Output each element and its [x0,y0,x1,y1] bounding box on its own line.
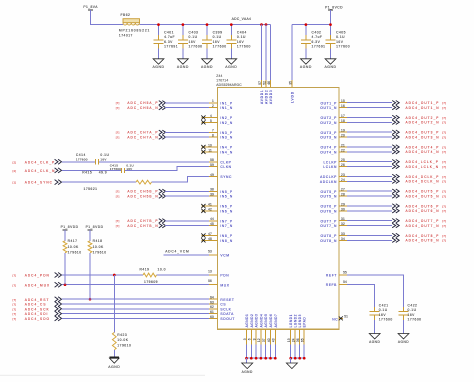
svg-text:22: 22 [341,148,345,152]
svg-text:LCLKN: LCLKN [323,165,337,169]
svg-text:[7]: [7] [442,116,446,120]
node ADC_CH7B input IN7 pins 44 45 [116,217,218,228]
svg-text:[7]: [7] [13,307,17,311]
svg-text:ADC4_LCLK_N: ADC4_LCLK_N [406,165,440,169]
svg-text:ADC_CH5B_P: ADC_CH5B_P [127,190,158,194]
node ADC_CH5A input IN1 pins 1 2 [116,99,218,110]
svg-text:C422: C422 [408,303,418,307]
svg-text:0.1U: 0.1U [237,35,246,39]
svg-text:54: 54 [343,280,347,284]
svg-text:ADC4_CLK_P: ADC4_CLK_P [25,160,56,164]
svg-text:FB62: FB62 [121,13,131,17]
node REFB pin 54 [326,280,375,307]
svg-text:R419: R419 [140,267,150,271]
svg-text:SDOUT: SDOUT [220,317,235,321]
svg-text:CLKP: CLKP [220,160,231,164]
resistor R418 10.0K [88,230,107,301]
svg-text:AGND1: AGND1 [245,314,249,328]
svg-text:C421: C421 [379,303,389,307]
capacitor C404 [226,25,251,59]
capacitor C421 [370,303,393,333]
svg-text:6.3V: 6.3V [164,40,173,44]
svg-text:46: 46 [267,81,271,85]
node ADC4_PDN pin 13 [13,269,218,277]
svg-text:AGND2: AGND2 [250,314,254,328]
svg-text:ADC_CH7B_N: ADC_CH7B_N [127,224,158,228]
node ADC4_CLK_N pin 59 [13,163,218,173]
svg-text:Z44: Z44 [216,74,222,78]
svg-text:AVDD2: AVDD2 [265,90,269,105]
svg-text:177600: 177600 [237,45,251,49]
resistor R423 10.0K [112,275,131,357]
svg-text:OUT4_N: OUT4_N [320,150,337,154]
node ADC4_OUT1 pins 15 16 [339,99,446,110]
svg-text:ADC_VAA4: ADC_VAA4 [232,17,252,21]
svg-text:5: 5 [210,119,212,123]
svg-text:[7]: [7] [116,101,120,105]
node ADC4_LCLK pins 25 26 [339,158,446,169]
IC U44 ADS5294ARGC body [218,88,340,330]
resistor R417 10.0K [63,230,82,285]
svg-text:[7]: [7] [442,190,446,194]
ground AGND (R423) [108,357,120,369]
svg-text:ADC_CH7B_P: ADC_CH7B_P [127,219,158,223]
svg-text:IN2_N: IN2_N [220,121,232,125]
svg-text:AGND: AGND [225,65,237,69]
svg-text:ADC_CH7A_N: ADC_CH7A_N [127,136,158,140]
svg-text:ADC4_DCLK_P: ADC4_DCLK_P [406,175,440,179]
svg-text:16V: 16V [379,313,387,317]
svg-text:24: 24 [292,338,296,342]
svg-text:IN5_P: IN5_P [220,190,232,194]
svg-text:16V: 16V [189,40,197,44]
svg-text:26: 26 [341,163,345,167]
svg-text:RESET: RESET [220,298,234,302]
svg-text:OUT8_N: OUT8_N [320,239,337,243]
svg-text:[7]: [7] [442,101,446,105]
svg-text:179610: 179610 [68,251,82,255]
svg-text:177691: 177691 [164,45,178,49]
svg-text:34: 34 [341,237,345,241]
node ADC4_SYNC pin 49 [13,173,218,185]
svg-text:ADC4_OUT7_P: ADC4_OUT7_P [406,219,440,223]
svg-text:ADC_CH5A_P: ADC_CH5A_P [127,101,158,105]
svg-text:IN3_N: IN3_N [220,136,232,140]
svg-text:ADC4_MUX: ADC4_MUX [25,283,51,287]
ground AGND (C422) [398,334,409,345]
svg-text:AGND7: AGND7 [274,314,278,328]
svg-text:32: 32 [341,222,345,226]
svg-text:ADC4_OUT1_P: ADC4_OUT1_P [406,101,440,105]
svg-text:0.1U: 0.1U [213,35,222,39]
svg-text:61: 61 [210,310,214,314]
svg-text:62: 62 [210,305,214,309]
svg-text:R423: R423 [117,333,127,337]
ground AGND (C404) [225,59,237,69]
svg-text:7: 7 [212,129,214,133]
wires LGND1-3 EPAD bottom pins [287,314,307,358]
ground AGND (C403) [177,59,189,69]
wire P1_8VD rail [292,24,331,26]
svg-text:IN6_N: IN6_N [220,209,232,213]
svg-text:ADC4_OUT6_P: ADC4_OUT6_P [406,204,440,208]
svg-text:174017: 174017 [119,33,133,37]
svg-text:[7]: [7] [442,175,446,179]
wire LVDD feed pin 35 [288,25,292,88]
svg-text:ADC4_OUT5_P: ADC4_OUT5_P [406,190,440,194]
svg-text:10.0K: 10.0K [93,245,104,249]
wire AVDD2 feed pin 52 [262,25,266,88]
svg-text:41: 41 [208,202,212,206]
no-connect NC pin 51 [332,314,348,321]
ferrite bead FB62 [119,13,150,38]
svg-text:10.0K: 10.0K [68,245,79,249]
svg-text:IN8_P: IN8_P [220,234,232,238]
node ADC4_OUT5 pins 27 28 [339,188,446,199]
svg-text:IN6_P: IN6_P [220,205,232,209]
capacitor C399 [202,25,227,59]
svg-text:ADC4_SDO: ADC4_SDO [25,317,50,321]
svg-text:LCLKP: LCLKP [323,160,337,164]
svg-text:[7]: [7] [13,317,17,321]
svg-text:ADC4_OUT2_N: ADC4_OUT2_N [406,121,440,125]
node ADC4_DCLK pins 23 24 [339,173,446,184]
svg-text:OUT1_N: OUT1_N [320,106,337,110]
svg-text:OUT1_P: OUT1_P [320,101,337,105]
svg-text:0.1U: 0.1U [336,35,345,39]
capacitor C422 [399,303,422,333]
node ADC4_CLK_P pin 58 [13,158,218,164]
svg-text:ADC4_OUT4_P: ADC4_OUT4_P [406,145,440,149]
svg-text:R417: R417 [68,239,78,243]
wire P1_8VCD down [330,10,332,24]
svg-text:1: 1 [212,99,214,103]
svg-text:[7]: [7] [442,234,446,238]
svg-text:SYNC: SYNC [220,175,232,179]
svg-text:PDN: PDN [220,274,229,278]
svg-text:177600: 177600 [408,318,422,322]
svg-text:ADC4_OUT1_N: ADC4_OUT1_N [406,106,440,110]
svg-text:OUT7_P: OUT7_P [320,219,337,223]
svg-text:179610: 179610 [117,344,131,348]
svg-text:57: 57 [258,81,262,85]
svg-text:44: 44 [210,217,214,221]
svg-text:[7]: [7] [442,160,446,164]
svg-text:52: 52 [262,81,266,85]
svg-text:ADC4_LCLK_P: ADC4_LCLK_P [406,160,439,164]
svg-text:49.9: 49.9 [99,170,107,174]
svg-text:OUT2_P: OUT2_P [320,116,337,120]
svg-text:10: 10 [208,143,212,147]
svg-text:59: 59 [210,163,214,167]
svg-text:[7]: [7] [116,190,120,194]
svg-text:REFB: REFB [326,283,337,287]
node ADC4_OUT4 pins 21 22 [339,143,446,154]
svg-text:ADS5294ARGC: ADS5294ARGC [216,83,242,87]
capacitor C403 [178,25,203,59]
svg-text:ADC4_OUT8_N: ADC4_OUT8_N [406,239,440,243]
power flag P1_8VDD (R417) [61,225,79,230]
svg-text:10.0: 10.0 [158,267,166,271]
ground AGND (C399) [201,59,213,69]
svg-text:177600: 177600 [336,45,350,49]
svg-text:179609: 179609 [144,280,158,284]
svg-text:OUT7_N: OUT7_N [320,224,337,228]
svg-text:177600: 177600 [110,167,121,171]
node ADC4_OUT8 pins 33 34 [339,232,446,243]
svg-text:ADC4_OUT4_N: ADC4_OUT4_N [406,150,440,154]
svg-text:27: 27 [341,188,345,192]
svg-text:42: 42 [208,207,212,211]
svg-text:11: 11 [208,148,212,152]
svg-text:P1_8VA: P1_8VA [83,5,98,9]
svg-text:53: 53 [208,250,212,254]
svg-text:[7]: [7] [13,298,17,302]
svg-text:LGND3: LGND3 [298,314,302,327]
svg-text:63: 63 [210,300,214,304]
svg-text:AGND3: AGND3 [255,314,259,328]
svg-text:65: 65 [301,338,305,342]
svg-text:C399: C399 [213,31,223,35]
svg-text:AGND: AGND [177,65,189,69]
svg-text:IN4_N: IN4_N [220,150,232,154]
svg-text:19: 19 [341,129,345,133]
svg-text:49: 49 [210,173,214,177]
svg-text:20: 20 [341,134,345,138]
junction dots P1_8VD rail [305,23,332,26]
svg-text:MUX: MUX [220,283,229,287]
svg-text:15: 15 [341,99,345,103]
svg-text:12: 12 [257,338,261,342]
svg-text:AGND: AGND [201,65,213,69]
svg-text:SCLK: SCLK [220,307,231,311]
no-connect IN2 pins 4 5 [201,114,217,125]
svg-text:47: 47 [208,232,212,236]
node ADC4_OUT6 pins 29 30 [339,202,446,213]
svg-text:177600: 177600 [213,45,227,49]
svg-text:IN4_P: IN4_P [220,146,232,150]
svg-text:177600: 177600 [189,45,203,49]
svg-text:[7]: [7] [442,145,446,149]
svg-text:[7]: [7] [442,150,446,154]
svg-text:13: 13 [287,338,291,342]
node ADC_CH5B input IN5 pins 38 39 [116,188,218,199]
svg-text:IN7_P: IN7_P [220,219,232,223]
svg-text:ADC4_OUT8_P: ADC4_OUT8_P [406,234,440,238]
ground AGND (C402) [300,59,312,69]
svg-text:OUT2_N: OUT2_N [320,121,337,125]
svg-text:ADC4_OUT3_P: ADC4_OUT3_P [406,131,440,135]
svg-text:AGND: AGND [369,340,380,344]
svg-text:ADC_CH5B_N: ADC_CH5B_N [127,195,158,199]
svg-text:OUT4_P: OUT4_P [320,146,337,150]
wires AGND1-7 bottom pins [243,314,278,359]
svg-text:[7]: [7] [116,224,120,228]
svg-text:8: 8 [212,134,214,138]
svg-text:ADC4_SCK: ADC4_SCK [25,307,50,311]
svg-text:4.7uF: 4.7uF [164,35,175,39]
wire AGND bus [245,357,277,360]
svg-text:[7]: [7] [116,219,120,223]
svg-text:ADC4_OUT6_N: ADC4_OUT6_N [406,209,440,213]
node REFT pin 55 [326,270,404,307]
svg-text:30: 30 [341,207,345,211]
no-connect IN6 pins 41 42 [201,202,217,213]
svg-text:[7]: [7] [442,131,446,135]
svg-text:37: 37 [262,338,266,342]
svg-text:56: 56 [208,279,212,283]
node ADC4_CS pin 63 [13,300,218,306]
svg-text:[7]: [7] [13,312,17,316]
svg-text:43: 43 [272,338,276,342]
svg-text:2: 2 [212,104,214,108]
capacitor C414 [76,153,110,164]
net label ADC_VAA4 [232,17,252,21]
svg-text:[7]: [7] [442,165,446,169]
svg-text:ADCLKP: ADCLKP [320,175,337,179]
svg-text:0.1U: 0.1U [408,308,417,312]
no-connect IN8 pins 47 48 [201,232,217,243]
svg-text:P1_8VDD: P1_8VDD [86,225,104,229]
svg-text:[7]: [7] [442,121,446,125]
wire ADC_VAA4 rail [140,24,271,26]
node ADC4_SDI pin 61 [13,310,218,316]
svg-text:OUT5_P: OUT5_P [320,190,337,194]
svg-text:4: 4 [210,114,212,118]
svg-text:ADC_CH5A_N: ADC_CH5A_N [127,106,158,110]
svg-text:[7]: [7] [442,224,446,228]
ground AGND (C421) [369,334,380,345]
svg-text:ADC4_OUT3_N: ADC4_OUT3_N [406,135,440,139]
svg-text:64: 64 [210,296,214,300]
svg-text:29: 29 [341,202,345,206]
svg-text:177600: 177600 [379,318,393,322]
svg-text:[7]: [7] [116,106,120,110]
svg-text:16V: 16V [213,40,221,44]
svg-text:6: 6 [248,338,252,340]
node ADC_CH7A input IN3 pins 7 8 [116,129,218,140]
svg-text:175621: 175621 [84,187,98,191]
svg-text:OUT8_P: OUT8_P [320,234,337,238]
svg-text:45: 45 [210,222,214,226]
node ADC4_OUT7 pins 31 32 [339,217,446,228]
ground AGND (C405) [325,59,337,69]
svg-text:CS: CS [220,303,226,307]
junction dots on ADC_VAA4 rail [157,23,267,26]
svg-text:ADC4_CLK_N: ADC4_CLK_N [25,169,56,173]
svg-text:39: 39 [210,193,214,197]
svg-text:EPAD: EPAD [303,317,307,328]
svg-text:CLKN: CLKN [220,165,231,169]
node ADC4_OUT3 pins 19 20 [339,129,446,140]
svg-text:3: 3 [243,338,247,340]
svg-text:9: 9 [252,338,256,340]
svg-text:0.1U: 0.1U [379,308,388,312]
svg-text:P1_8VDD: P1_8VDD [61,225,79,229]
svg-text:OUT5_N: OUT5_N [320,195,337,199]
pin labels right side [320,101,337,243]
svg-text:[2]: [2] [13,169,17,173]
ground (LGND bus) [286,358,297,368]
svg-text:[7]: [7] [442,239,446,243]
svg-text:C402: C402 [312,31,322,35]
svg-text:177691: 177691 [312,45,326,49]
wire LGND bus [289,357,305,360]
svg-text:40: 40 [267,338,271,342]
power flag P1_8VCD [325,5,343,10]
svg-text:[7]: [7] [13,274,17,278]
svg-text:16V: 16V [237,40,245,44]
svg-text:21: 21 [341,143,345,147]
svg-text:P1_8VCD: P1_8VCD [325,5,343,9]
svg-text:OUT3_N: OUT3_N [320,136,337,140]
svg-text:13: 13 [208,269,212,273]
svg-text:36: 36 [296,338,300,342]
svg-text:[7]: [7] [442,204,446,208]
svg-text:[7]: [7] [442,135,446,139]
pin labels left side [220,101,235,321]
svg-text:ADC4_OUT5_N: ADC4_OUT5_N [406,194,440,198]
svg-text:LVDD: LVDD [291,91,295,103]
svg-text:AGND: AGND [300,65,312,69]
capacitor C405 [326,25,351,59]
svg-text:IN8_N: IN8_N [220,239,232,243]
svg-text:ADC4_CS: ADC4_CS [25,303,47,307]
svg-text:58: 58 [210,158,214,162]
svg-text:SDATA: SDATA [220,312,234,316]
svg-text:24: 24 [341,178,345,182]
svg-text:ADCLKN: ADCLKN [320,180,337,184]
wire P1_8VA to rail [91,10,123,25]
svg-text:[7]: [7] [442,106,446,110]
svg-text:51: 51 [344,314,348,318]
svg-text:177600: 177600 [76,157,88,161]
svg-text:ADC4_OUT2_P: ADC4_OUT2_P [406,116,440,120]
svg-text:ADC4_RST: ADC4_RST [25,298,50,302]
svg-text:C405: C405 [336,31,346,35]
svg-text:ADC4_OUT7_N: ADC4_OUT7_N [406,224,440,228]
svg-text:AGND4: AGND4 [259,314,263,328]
svg-text:REFT: REFT [326,274,337,278]
svg-text:35: 35 [288,81,292,85]
svg-text:IN3_P: IN3_P [220,131,232,135]
svg-text:31: 31 [341,217,345,221]
svg-text:[7]: [7] [442,180,446,184]
svg-text:16: 16 [341,104,345,108]
svg-text:LGND2: LGND2 [294,314,298,327]
svg-text:33: 33 [341,232,345,236]
svg-text:ADC4_DCLK_N: ADC4_DCLK_N [406,180,440,184]
svg-text:48: 48 [208,237,212,241]
capacitor C402 [301,25,326,59]
svg-text:[2]: [2] [13,160,17,164]
capacitor C401 [154,25,179,59]
svg-text:AGND: AGND [108,365,120,369]
svg-text:AVDD3: AVDD3 [269,90,273,105]
svg-text:ADC4_SDI: ADC4_SDI [25,312,49,316]
svg-text:16V: 16V [408,313,416,317]
svg-text:[7]: [7] [116,195,120,199]
svg-text:AGND: AGND [242,370,253,374]
svg-text:C403: C403 [189,31,199,35]
svg-text:R415: R415 [82,170,92,174]
svg-text:AGND: AGND [398,340,409,344]
svg-text:AVDD1: AVDD1 [260,90,264,105]
node ADC4_OUT2 pins 17 18 [339,114,446,125]
svg-text:NC: NC [332,318,338,322]
svg-text:[7]: [7] [13,303,17,307]
svg-text:[7]: [7] [442,194,446,198]
